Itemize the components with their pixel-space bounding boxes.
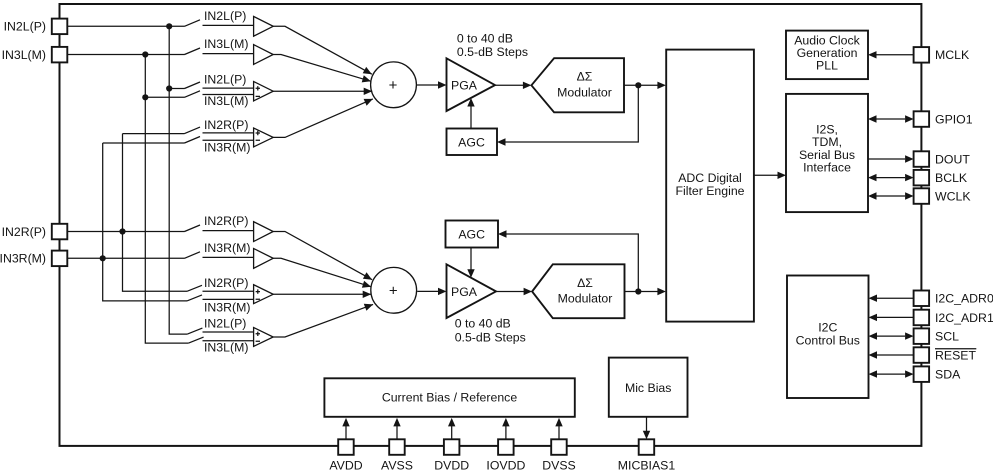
svg-text:IN3R(M): IN3R(M) — [204, 300, 250, 314]
pin MCLK — [914, 47, 970, 63]
wire A4 output to summing node — [273, 99, 373, 137]
wire SDA bidirectional — [869, 370, 914, 377]
wire SCL bidirectional — [869, 332, 914, 339]
svg-text:AVSS: AVSS — [381, 458, 413, 472]
pin DOUT — [914, 151, 971, 167]
wire ADC engine to I2S interface — [754, 174, 780, 176]
svg-text:+: + — [389, 77, 398, 94]
node label row8 IN3L(M) — [203, 340, 254, 354]
node label row7 IN3R(M) — [203, 299, 254, 314]
wire summing node to PGA top — [417, 84, 440, 86]
wire row6 IN3R(M) from pin — [67, 252, 200, 258]
pin I2C_ADR0 — [914, 291, 993, 307]
buffer amp A6 — [254, 249, 274, 269]
arrowhead into ADC engine top — [657, 82, 666, 89]
arrowhead A6 into summing node — [362, 281, 371, 288]
wire IOVDD to bias block — [502, 418, 509, 439]
wire AVSS to bias block — [393, 418, 400, 439]
svg-text:MICBIAS1: MICBIAS1 — [618, 458, 676, 472]
svg-text:IN2R(P): IN2R(P) — [204, 276, 248, 290]
wire row5 IN2R(P) from pin — [67, 225, 200, 232]
delta-sigma modulator top — [531, 58, 624, 112]
wire modulator feedback to AGC bottom — [506, 234, 638, 292]
svg-text:ΔΣ: ΔΣ — [577, 70, 593, 84]
arrowhead A8 into summing node — [364, 304, 373, 311]
svg-text:Current Bias / Reference: Current Bias / Reference — [382, 391, 517, 405]
bus wire IN3R(M) vertical — [103, 143, 187, 301]
wire DVSS to bias block — [555, 418, 562, 439]
arrowhead into PGA top — [438, 81, 447, 88]
node label row6 IN3R(M) — [203, 241, 254, 257]
summing node top — [371, 62, 417, 108]
wire BCLK bidirectional — [868, 174, 914, 181]
svg-text:Filter Engine: Filter Engine — [675, 184, 744, 198]
node label row5 IN2R(P) — [203, 214, 254, 230]
mic bias block — [609, 358, 688, 417]
arrowhead feedback into AGC top — [497, 138, 506, 145]
wire AGC to PGA top — [470, 106, 472, 129]
diff amp A7 — [254, 285, 274, 304]
arrowhead A3 into summing node — [364, 88, 373, 95]
node label row3 IN2L(P) — [203, 73, 254, 89]
buffer amp A1 — [254, 16, 274, 36]
diff amp A4 — [254, 128, 274, 147]
diff amp A8 — [254, 328, 274, 347]
svg-text:IN2R(P): IN2R(P) — [204, 214, 248, 228]
node label row1 IN2L(P) — [203, 9, 254, 25]
junction dot row6 bus IN3R(M) — [100, 255, 106, 261]
arrowhead A4 into summing node — [364, 99, 373, 106]
junction dot row2 bus IN3L(M) — [142, 51, 148, 57]
wire row4- horizontal — [103, 142, 185, 144]
svg-text:IN2L(P): IN2L(P) — [4, 20, 46, 34]
svg-text:Control Bus: Control Bus — [796, 333, 860, 347]
wire row2 IN3L(M) from pin — [67, 48, 200, 55]
node label row4 IN2R(P) — [203, 118, 254, 133]
wire PGA to modulator bottom — [496, 291, 525, 293]
svg-text:IN3R(M): IN3R(M) — [204, 140, 250, 154]
PGA bottom — [447, 264, 497, 318]
arrowhead A1 into summing node — [363, 67, 372, 74]
svg-text:PGA: PGA — [451, 79, 478, 93]
svg-text:IN3L(M): IN3L(M) — [204, 37, 248, 51]
svg-text:IN2R(P): IN2R(P) — [204, 118, 248, 132]
diff amp A3 — [254, 82, 274, 101]
wire A2 output to summing node — [273, 55, 371, 82]
pin IN2L(P) — [4, 19, 68, 34]
switch blade row7+ — [187, 285, 202, 291]
node label row8 IN2L(P) — [203, 317, 254, 332]
svg-text:IOVDD: IOVDD — [486, 458, 525, 472]
wire row3- tap — [145, 91, 200, 98]
svg-text:AGC: AGC — [458, 136, 485, 150]
svg-text:0.5-dB Steps: 0.5-dB Steps — [457, 45, 528, 59]
pin SCL — [914, 328, 959, 344]
svg-text:BCLK: BCLK — [935, 171, 968, 185]
switch blade row4+ — [185, 127, 201, 134]
pin IN3R(M) — [0, 251, 67, 267]
svg-text:PLL: PLL — [816, 59, 838, 73]
I2S TDM serial bus interface U3 — [786, 94, 868, 212]
wire GPIO1 bidirectional — [868, 115, 914, 122]
pin DVDD — [434, 439, 469, 472]
bus wire IN3L(M) vertical — [145, 55, 188, 344]
node label row2 IN3L(M) — [203, 37, 254, 54]
switch blade row7- — [187, 295, 202, 301]
buffer amp A5 — [254, 222, 274, 242]
delta-sigma modulator bottom — [532, 264, 624, 318]
wire MCLK to PLL — [868, 51, 914, 58]
arrowhead AGC to PGA top — [467, 98, 474, 107]
svg-text:Modulator: Modulator — [557, 86, 612, 100]
arrowhead A5 into summing node — [363, 272, 372, 279]
pin SDA — [914, 366, 961, 382]
svg-text:IN3L(M): IN3L(M) — [204, 340, 248, 354]
wire modulator top to ADC engine — [624, 84, 658, 86]
node label row4 IN3R(M) — [203, 140, 254, 154]
svg-text:IN2L(P): IN2L(P) — [204, 73, 246, 87]
svg-text:IN2R(P): IN2R(P) — [2, 225, 46, 239]
svg-text:IN3L(M): IN3L(M) — [204, 94, 248, 108]
svg-text:Modulator: Modulator — [558, 292, 613, 306]
arrowhead A2 into summing node — [362, 75, 371, 82]
arrowhead into I2S interface — [778, 172, 787, 179]
svg-text:DVDD: DVDD — [434, 458, 469, 472]
pin GPIO1 — [914, 111, 973, 127]
svg-text:AVDD: AVDD — [329, 458, 362, 472]
node label row3 IN3L(M) — [203, 94, 254, 108]
pin MICBIAS1 — [618, 439, 676, 472]
svg-text:MCLK: MCLK — [935, 48, 970, 62]
wire A6 output to summing node — [273, 258, 371, 287]
svg-text:Interface: Interface — [803, 161, 851, 175]
svg-text:SDA: SDA — [935, 368, 961, 382]
I2C control bus U4 — [787, 276, 869, 399]
wire I2C_ADR1 into I2C — [869, 314, 914, 321]
svg-text:DVSS: DVSS — [542, 458, 576, 472]
pin I2C_ADR1 — [914, 310, 993, 326]
current bias / reference block — [324, 378, 574, 417]
PGA top gain label — [457, 31, 528, 59]
wire RESET into I2C — [869, 351, 914, 358]
svg-text:I2C_ADR0: I2C_ADR0 — [935, 292, 993, 306]
node label row7 IN2R(P) — [203, 276, 254, 291]
wire I2C_ADR0 into I2C — [869, 295, 914, 302]
wire PGA to modulator top — [495, 84, 524, 86]
svg-text:AGC: AGC — [458, 228, 485, 242]
svg-text:SCL: SCL — [935, 330, 959, 344]
audio clock generation PLL U2 — [786, 31, 868, 80]
pin RESET (active low) — [914, 347, 977, 363]
pin DVSS — [542, 439, 576, 472]
switch blade row4- — [185, 137, 201, 144]
ADC digital filter engine U1 — [666, 50, 754, 322]
bus wire IN2L(P) vertical — [169, 26, 187, 334]
svg-text:PGA: PGA — [451, 285, 478, 299]
wire row3+ tap — [169, 82, 200, 89]
wire A8 output to summing node — [273, 304, 373, 337]
wire row4+ horizontal — [123, 133, 185, 135]
summing node bottom — [371, 267, 417, 313]
wire WCLK bidirectional — [868, 192, 914, 199]
arrowhead into PGA bottom — [438, 288, 447, 295]
arrowhead into modulator top — [523, 82, 532, 89]
wire DOUT out of I2S — [868, 155, 914, 162]
arrowhead A7 into summing node — [363, 291, 372, 298]
switch blade row8- — [189, 337, 204, 343]
wire A7 output to summing node — [273, 293, 371, 295]
PGA bottom gain label — [455, 317, 526, 345]
pin AVSS — [381, 439, 413, 472]
junction dot row3+ — [166, 85, 172, 91]
wire A1 output to summing node — [273, 26, 372, 74]
arrowhead AGC to PGA bottom — [467, 269, 474, 278]
svg-text:0 to 40 dB: 0 to 40 dB — [457, 31, 513, 45]
svg-text:WCLK: WCLK — [935, 189, 971, 203]
svg-text:DOUT: DOUT — [935, 152, 970, 166]
pin AVDD — [329, 439, 362, 472]
bus wire IN2R(P) vertical — [123, 134, 188, 292]
pin BCLK — [914, 170, 968, 186]
junction dot modulator bottom output — [635, 288, 641, 294]
wire modulator feedback to AGC top — [505, 85, 638, 142]
svg-text:I2C_ADR1: I2C_ADR1 — [935, 311, 993, 325]
wire A5 output to summing node — [273, 232, 372, 280]
AGC top box — [447, 129, 498, 156]
pin IN3L(M) — [2, 47, 68, 63]
arrowhead feedback into AGC bottom — [498, 230, 507, 237]
wire AGC to PGA bottom — [470, 248, 472, 271]
pin IN2R(P) — [2, 224, 68, 240]
svg-text:ΔΣ: ΔΣ — [577, 276, 593, 290]
junction dot row3- — [142, 94, 148, 100]
svg-text:0 to 40 dB: 0 to 40 dB — [455, 317, 511, 331]
wire A3 output to summing node — [273, 90, 372, 92]
svg-text:IN3R(M): IN3R(M) — [0, 252, 46, 266]
junction dot row1 bus IN2L(P) — [166, 23, 172, 29]
svg-text:0.5-dB Steps: 0.5-dB Steps — [455, 331, 526, 345]
wire summing node to PGA bottom — [417, 290, 440, 292]
buffer amp A2 — [254, 45, 274, 65]
svg-text:+: + — [389, 282, 398, 299]
wire DVDD to bias block — [448, 418, 455, 439]
svg-text:IN2L(P): IN2L(P) — [204, 9, 246, 23]
PGA top — [447, 58, 496, 111]
junction dot modulator top output — [635, 82, 641, 88]
svg-text:RESET: RESET — [935, 348, 976, 362]
AGC bottom box — [446, 221, 499, 248]
svg-text:IN3R(M): IN3R(M) — [204, 241, 250, 255]
svg-text:IN2L(P): IN2L(P) — [204, 317, 246, 331]
svg-text:GPIO1: GPIO1 — [935, 112, 973, 126]
pin WCLK — [914, 188, 972, 204]
arrowhead into modulator bottom — [524, 288, 533, 295]
wire mic bias block to MICBIAS1 — [643, 417, 650, 440]
svg-text:IN3L(M): IN3L(M) — [2, 48, 46, 62]
junction dot row5 bus IN2R(P) — [119, 228, 125, 234]
switch blade row8+ — [187, 328, 202, 334]
arrowhead into ADC engine bottom — [657, 288, 666, 295]
wire modulator bottom to ADC engine — [625, 291, 659, 293]
pin IOVDD — [486, 439, 525, 472]
wire AVDD to bias block — [342, 418, 349, 439]
svg-text:Mic Bias: Mic Bias — [625, 381, 671, 395]
wire row1 IN2L(P) from pin — [67, 20, 200, 27]
